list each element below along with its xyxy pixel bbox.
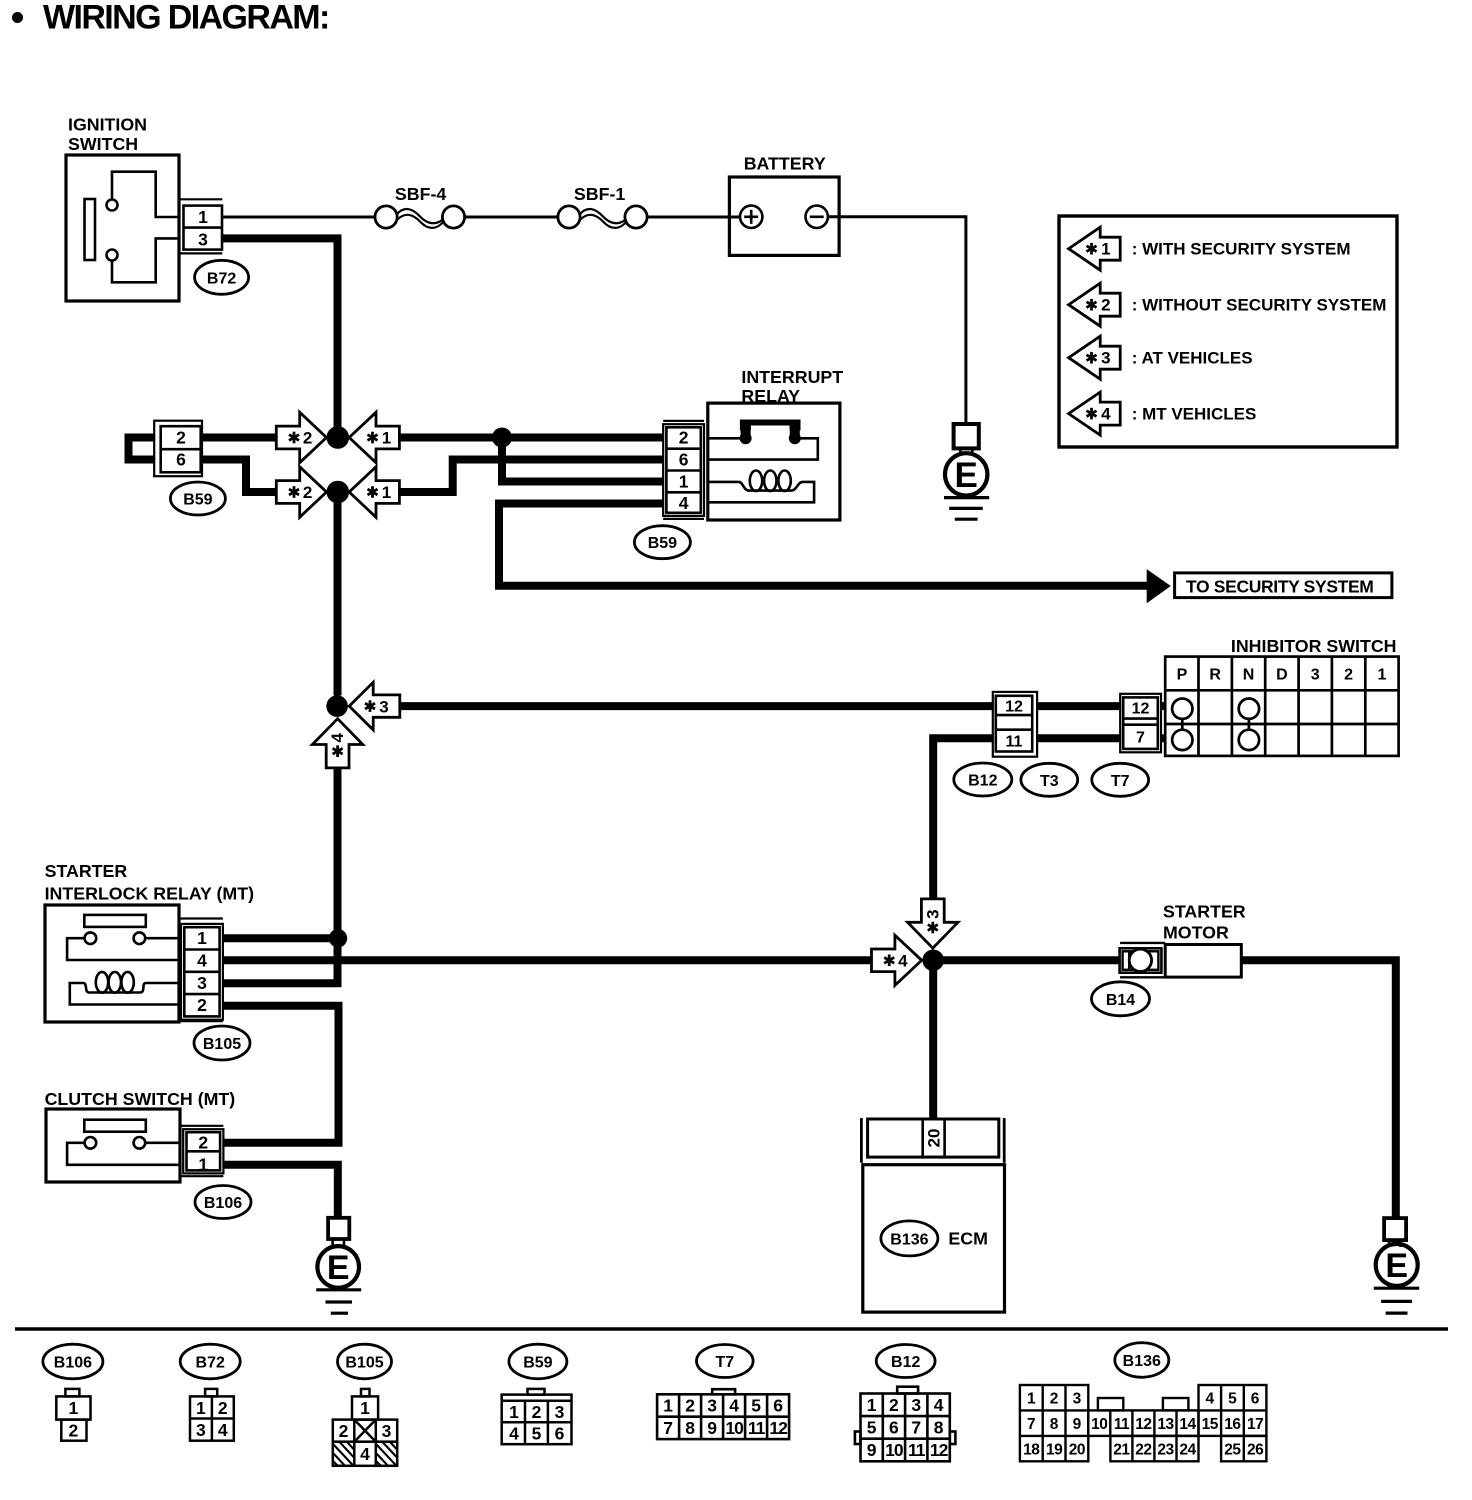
svg-text:6: 6 [773, 1396, 783, 1416]
svg-text:B106: B106 [54, 1355, 92, 1372]
svg-text:E: E [327, 1249, 350, 1287]
relay contact bar [740, 420, 801, 431]
pinout B136 icon [1020, 1385, 1267, 1461]
main bus below *4 [334, 768, 342, 983]
svg-text:4: 4 [898, 952, 908, 971]
wire ignition pin3 to main bus [222, 238, 337, 427]
svg-text:B59: B59 [183, 492, 212, 509]
pinout B12 label [876, 1345, 935, 1378]
svg-text:26: 26 [1247, 1441, 1264, 1458]
wire B106 pin1 to ground [223, 1165, 337, 1218]
svg-text:SBF-1: SBF-1 [574, 184, 625, 204]
svg-text:3: 3 [923, 909, 942, 918]
wire B12 to T7 row12 [1037, 702, 1120, 710]
connector label B59 (relay) [634, 526, 690, 559]
svg-text:INTERRUPT: INTERRUPT [741, 367, 843, 387]
arrow *3 (points left at node) [349, 682, 400, 730]
svg-text:5: 5 [751, 1396, 761, 1416]
connector B72 wings [179, 198, 222, 200]
node junction AT/MT split [326, 695, 348, 717]
svg-text:CLUTCH SWITCH (MT): CLUTCH SWITCH (MT) [45, 1089, 236, 1109]
ignition switch key bar [85, 199, 96, 260]
svg-text:12: 12 [769, 1418, 788, 1438]
svg-text:STARTER: STARTER [1163, 902, 1246, 922]
svg-text:11: 11 [1114, 1416, 1130, 1433]
svg-text:25: 25 [1224, 1441, 1241, 1458]
svg-text:B72: B72 [207, 270, 236, 287]
connector label B14 [1092, 982, 1150, 1016]
wire jumper hook left of B59 [129, 438, 155, 460]
svg-text:2: 2 [679, 428, 689, 448]
svg-text:B136: B136 [1123, 1353, 1161, 1370]
svg-text:2: 2 [69, 1421, 79, 1441]
connector B105 wings [179, 917, 223, 919]
connector label T3 [1021, 763, 1078, 796]
svg-text:2: 2 [218, 1398, 228, 1418]
svg-text:7: 7 [911, 1417, 921, 1437]
node junction at B105 pin1 [329, 929, 347, 947]
wire B106 pin2 to bus elbow [223, 1139, 342, 1147]
svg-text:11: 11 [1006, 733, 1023, 750]
svg-text:20: 20 [925, 1129, 944, 1148]
inhibitor switch table [1165, 657, 1398, 756]
arrow *3 (points down at starter node) [908, 899, 958, 948]
svg-text:5: 5 [1228, 1391, 1237, 1408]
pinout B12 icon [855, 1387, 955, 1462]
pinout B106 icon [56, 1389, 90, 1441]
wire SBF-1 to battery [647, 216, 740, 219]
svg-text:23: 23 [1157, 1441, 1174, 1458]
svg-text:WIRING DIAGRAM:: WIRING DIAGRAM: [43, 0, 329, 37]
svg-text:2: 2 [303, 483, 312, 502]
pinout B106 label [43, 1344, 103, 1379]
svg-text:8: 8 [685, 1418, 695, 1438]
connector label B105 [194, 1026, 250, 1060]
svg-text:3: 3 [555, 1402, 565, 1422]
svg-text:T3: T3 [1040, 773, 1059, 790]
svg-text:11: 11 [748, 1418, 766, 1438]
connector B59 (relay) wings [663, 420, 704, 422]
svg-text:12: 12 [1132, 701, 1150, 718]
svg-text:: WITH SECURITY SYSTEM: : WITH SECURITY SYSTEM [1132, 240, 1351, 259]
svg-text:9: 9 [1073, 1416, 1082, 1433]
svg-text:B106: B106 [204, 1195, 242, 1212]
svg-text:1: 1 [382, 483, 391, 502]
separator line [15, 1327, 1448, 1331]
pinout B59 icon [502, 1389, 572, 1444]
svg-text:2: 2 [176, 428, 186, 448]
svg-text:4: 4 [360, 1444, 370, 1464]
svg-text:10: 10 [725, 1418, 744, 1438]
svg-text:1: 1 [360, 1398, 370, 1418]
svg-text:T7: T7 [1111, 773, 1130, 790]
svg-text:3: 3 [707, 1396, 717, 1416]
svg-text:SWITCH: SWITCH [68, 134, 138, 154]
svg-text:1: 1 [198, 1154, 208, 1174]
arrow *2 (row2) [276, 467, 326, 517]
wire starter motor to right ground [1241, 960, 1396, 1218]
svg-text:7: 7 [663, 1418, 673, 1438]
connector label B136 [881, 1221, 938, 1256]
svg-text:3: 3 [198, 230, 208, 250]
svg-text:4: 4 [729, 1396, 739, 1416]
interlock contact terminals [85, 932, 97, 944]
wire B105 pin3 to bus [223, 979, 342, 987]
relay contact wiring [708, 437, 741, 440]
wire battery to ground E [828, 217, 966, 424]
relay contact terminals [740, 432, 752, 444]
svg-text:1: 1 [382, 429, 391, 448]
wire row2 to relay pin6 [399, 460, 663, 493]
wire B59 pin2 to arrow *2 [201, 434, 277, 442]
svg-text:10: 10 [885, 1440, 904, 1460]
legend arrow *3 [1069, 336, 1121, 379]
svg-text:18: 18 [1023, 1441, 1040, 1458]
svg-text:17: 17 [1247, 1416, 1263, 1433]
wire B105 pin4 to arrow *4 (starter) [223, 956, 872, 964]
connector B72 pins 1/3 [184, 206, 223, 250]
svg-text:8: 8 [1050, 1416, 1059, 1433]
svg-text:T7: T7 [715, 1354, 734, 1371]
svg-text:: WITHOUT SECURITY SYSTEM: : WITHOUT SECURITY SYSTEM [1132, 296, 1387, 315]
interlock contact bar [84, 915, 146, 927]
svg-text:3: 3 [382, 1421, 392, 1441]
starter motor body [1120, 942, 1165, 944]
connector B105 pins 1/4/3/2 [181, 924, 223, 1020]
svg-text:4: 4 [1205, 1391, 1214, 1408]
node junction row2 [327, 481, 350, 504]
relay coil [708, 482, 814, 502]
inhibitor header letters [1177, 667, 1387, 684]
ignition switch contact upper [107, 200, 118, 211]
pinout B136 label [1115, 1343, 1169, 1378]
svg-text:IGNITION: IGNITION [68, 115, 147, 135]
ECM box [863, 1165, 1005, 1312]
node junction row1 [327, 426, 350, 449]
connector B106 pins 2/1 [183, 1129, 223, 1173]
wire row 11 down to starter node [933, 738, 993, 899]
svg-text:5: 5 [532, 1424, 542, 1444]
svg-text:4: 4 [679, 493, 689, 513]
svg-text:2: 2 [1344, 667, 1353, 684]
svg-text:BATTERY: BATTERY [744, 154, 826, 174]
connector T7 pins 12/7 [1120, 694, 1161, 753]
svg-text:12: 12 [930, 1440, 949, 1460]
pinout B59 label [509, 1344, 567, 1379]
svg-text:1: 1 [679, 471, 689, 491]
svg-text:4: 4 [934, 1395, 944, 1415]
svg-text:6: 6 [889, 1417, 899, 1437]
svg-text:3: 3 [911, 1395, 921, 1415]
svg-text:6: 6 [176, 450, 186, 470]
connector label B12 [954, 763, 1012, 796]
svg-text:: MT VEHICLES: : MT VEHICLES [1132, 405, 1257, 424]
svg-text:1: 1 [1027, 1391, 1036, 1408]
svg-text:3: 3 [197, 973, 207, 993]
svg-text:6: 6 [679, 450, 689, 470]
svg-text:22: 22 [1135, 1441, 1151, 1458]
svg-text:B59: B59 [648, 535, 677, 552]
battery - terminal [806, 206, 828, 228]
svg-text:B14: B14 [1106, 992, 1135, 1009]
svg-text:1: 1 [867, 1395, 877, 1415]
pinout B105 icon [333, 1389, 397, 1466]
wire T7 into switch row12 [1161, 702, 1166, 710]
inhibitor contacts P column [1172, 699, 1192, 719]
svg-text:15: 15 [1202, 1416, 1219, 1433]
ECM connector strip [868, 1119, 999, 1157]
svg-text:1: 1 [197, 928, 207, 948]
svg-text:1: 1 [663, 1396, 673, 1416]
svg-text:B12: B12 [968, 773, 997, 790]
starter interlock relay box [45, 905, 179, 1022]
legend box [1059, 216, 1397, 447]
svg-text:STARTER: STARTER [45, 861, 128, 881]
connector B59 pins 2/6 (left) [154, 421, 202, 477]
connector label B106 [195, 1186, 251, 1219]
svg-text:TO SECURITY SYSTEM: TO SECURITY SYSTEM [1186, 577, 1374, 597]
svg-text:N: N [1243, 667, 1255, 684]
pinout B105 label [338, 1344, 392, 1379]
svg-text:19: 19 [1046, 1441, 1063, 1458]
svg-text:11: 11 [908, 1440, 926, 1460]
svg-text:6: 6 [555, 1424, 565, 1444]
svg-text:2: 2 [889, 1395, 899, 1415]
svg-text:7: 7 [1136, 730, 1145, 747]
interrupt relay box [708, 403, 840, 520]
svg-text:B12: B12 [891, 1354, 920, 1371]
svg-text:B105: B105 [203, 1036, 241, 1053]
svg-text:D: D [1276, 667, 1288, 684]
svg-text:24: 24 [1179, 1441, 1196, 1458]
svg-text:14: 14 [1179, 1416, 1196, 1433]
clutch switch box [46, 1109, 180, 1182]
svg-text:2: 2 [197, 995, 207, 1015]
svg-text:2: 2 [303, 429, 312, 448]
svg-text:10: 10 [1091, 1416, 1107, 1433]
svg-text:9: 9 [867, 1440, 877, 1460]
ground E (clutch) [328, 1218, 349, 1239]
svg-text:1: 1 [198, 207, 208, 227]
svg-text:2: 2 [532, 1402, 542, 1422]
svg-text:2: 2 [339, 1421, 349, 1441]
wire node to starter motor [943, 956, 1120, 964]
svg-text:5: 5 [867, 1417, 877, 1437]
wire B59 pin6 to arrow *2 (row2) [201, 460, 278, 493]
svg-text:E: E [1385, 1247, 1408, 1285]
svg-text:R: R [1209, 667, 1221, 684]
ground E (battery) [954, 424, 979, 448]
svg-text:B59: B59 [523, 1355, 552, 1372]
svg-text:9: 9 [707, 1418, 717, 1438]
pinout T7 icon [657, 1389, 789, 1439]
svg-text:INHIBITOR SWITCH: INHIBITOR SWITCH [1231, 636, 1397, 656]
svg-text:2: 2 [685, 1396, 695, 1416]
arrow *1 (row2) [349, 467, 399, 517]
ECM pin 20 cell [923, 1119, 945, 1157]
svg-text:7: 7 [1027, 1416, 1036, 1433]
svg-text:2: 2 [198, 1132, 208, 1152]
svg-text:4: 4 [197, 951, 207, 971]
svg-text:1: 1 [1101, 240, 1110, 259]
interlock contact wiring [67, 938, 179, 960]
ignition switch contact lower [107, 250, 118, 261]
node junction at relay feed [492, 428, 512, 448]
svg-text:MOTOR: MOTOR [1163, 923, 1229, 943]
wire starter node to ECM pin20 [929, 970, 937, 1119]
wire row1 to relay connector [399, 434, 663, 442]
inhibitor contacts N column [1239, 699, 1259, 719]
svg-text:INTERLOCK RELAY (MT): INTERLOCK RELAY (MT) [45, 884, 255, 904]
connector B12 pins 12/11 [993, 692, 1037, 757]
svg-text:ECM: ECM [948, 1228, 988, 1248]
svg-text:: AT VEHICLES: : AT VEHICLES [1132, 349, 1253, 368]
arrow *4 (points right at starter node) [872, 935, 922, 985]
battery + terminal [740, 206, 762, 228]
svg-text:4: 4 [328, 733, 347, 743]
svg-text:1: 1 [69, 1398, 79, 1418]
arrow *2 (row1) [276, 412, 326, 462]
svg-text:SBF-4: SBF-4 [395, 184, 446, 204]
svg-text:E: E [955, 456, 978, 495]
clutch contact wiring [67, 1143, 180, 1165]
clutch contact terminals [85, 1137, 97, 1149]
svg-text:13: 13 [1157, 1416, 1174, 1433]
ECM connector wings [860, 1118, 863, 1163]
ground E (starter) [1384, 1218, 1406, 1240]
legend arrow *4 [1069, 392, 1121, 435]
legend arrow *1 [1069, 227, 1121, 270]
svg-text:21: 21 [1113, 1441, 1130, 1458]
wire T7 into switch row7 [1161, 734, 1166, 742]
svg-text:4: 4 [509, 1424, 519, 1444]
svg-text:B136: B136 [890, 1231, 928, 1248]
connector B106 wings [180, 1125, 223, 1127]
svg-text:1: 1 [196, 1398, 206, 1418]
wire B105 pin2 down to clutch switch [223, 1006, 339, 1143]
svg-text:2: 2 [1101, 296, 1110, 315]
wire ignition pin1 to SBF-4 [222, 216, 375, 219]
svg-text:2: 2 [1050, 1391, 1059, 1408]
title bullet [12, 12, 23, 23]
wire branch to relay pin1 [502, 438, 663, 482]
wire relay pin4 to security system [499, 504, 1148, 586]
svg-text:20: 20 [1069, 1441, 1085, 1458]
ignition switch box [66, 155, 179, 301]
svg-text:1: 1 [509, 1402, 519, 1422]
arrowhead to security system [1147, 569, 1171, 603]
svg-text:3: 3 [379, 697, 388, 716]
svg-text:8: 8 [934, 1417, 944, 1437]
svg-text:12: 12 [1005, 698, 1023, 715]
svg-text:12: 12 [1135, 1416, 1151, 1433]
pinout B72 label [180, 1344, 240, 1379]
svg-text:3: 3 [1073, 1391, 1082, 1408]
svg-text:3: 3 [196, 1420, 206, 1440]
connector label T7 [1092, 763, 1149, 796]
svg-text:3: 3 [1101, 349, 1110, 368]
wire B12 to T7 row11/7 [1037, 734, 1120, 742]
clutch contact bar [84, 1120, 146, 1132]
connector B59 pins 2/6/1/4 [663, 424, 704, 516]
main bus between row2 and node *3 [334, 503, 342, 696]
svg-text:6: 6 [1251, 1391, 1260, 1408]
wire SBF-4 to SBF-1 [465, 216, 558, 219]
pinout T7 label [697, 1345, 754, 1378]
pinout B72 icon [190, 1389, 234, 1441]
arrow *1 (row1) [349, 412, 399, 462]
svg-text:16: 16 [1224, 1416, 1241, 1433]
svg-text:3: 3 [1311, 667, 1320, 684]
svg-text:B105: B105 [345, 1355, 383, 1372]
svg-text:1: 1 [1377, 667, 1386, 684]
battery box [729, 177, 839, 255]
to security system box [1175, 573, 1392, 598]
connector label B59 (left) [170, 482, 225, 515]
svg-text:4: 4 [218, 1420, 228, 1440]
arrow *4 (points up at node) [312, 719, 362, 768]
svg-text:4: 4 [1101, 405, 1111, 424]
interlock coil [70, 983, 179, 1005]
node junction starter [922, 950, 944, 972]
svg-text:P: P [1177, 667, 1188, 684]
svg-text:B72: B72 [196, 1355, 225, 1372]
connector label B72 [195, 260, 249, 294]
wire *3 to connector B12 [400, 702, 993, 710]
wire B105 pin1 to bus node [223, 934, 338, 942]
legend arrow *2 [1069, 283, 1121, 326]
